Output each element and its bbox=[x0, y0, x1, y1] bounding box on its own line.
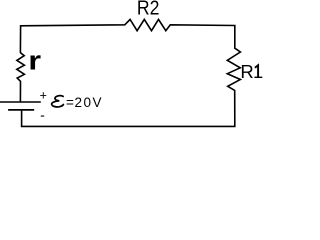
svg-text:r: r bbox=[28, 46, 41, 76]
svg-text:20V: 20V bbox=[75, 95, 103, 110]
svg-text:R: R bbox=[240, 61, 253, 82]
svg-text:=: = bbox=[66, 95, 74, 110]
svg-text:R2: R2 bbox=[137, 0, 160, 19]
svg-text:+: + bbox=[40, 88, 47, 102]
